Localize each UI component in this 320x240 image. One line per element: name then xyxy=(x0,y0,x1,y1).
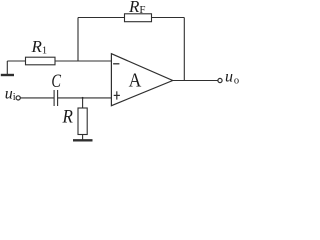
minus sign (inverting input) xyxy=(113,63,119,65)
svg-text:R: R xyxy=(62,106,73,127)
ground (below R) xyxy=(73,139,93,141)
resistor RF xyxy=(125,14,152,22)
wire R to ground xyxy=(82,135,84,140)
wire op-amp output xyxy=(173,80,218,82)
svg-text:A: A xyxy=(129,69,142,91)
plus sign (non-inverting input) xyxy=(114,91,120,99)
terminal uo xyxy=(218,78,222,82)
wire junction to R xyxy=(82,98,84,108)
wire feedback top left xyxy=(78,17,125,19)
wire ground to R1 xyxy=(7,60,25,62)
svg-text:C: C xyxy=(51,70,61,91)
wire feedback vertical right xyxy=(183,18,185,81)
wire feedback vertical left xyxy=(77,18,79,62)
op-amp A xyxy=(111,54,172,106)
wire R1 to op-amp inverting input xyxy=(55,60,112,62)
wire ui terminal to capacitor xyxy=(20,97,54,99)
resistor R xyxy=(78,108,87,135)
ground (left) xyxy=(1,61,14,75)
resistor R1 xyxy=(26,57,56,65)
capacitor C xyxy=(54,90,58,106)
terminal ui xyxy=(16,96,20,100)
wire capacitor to op-amp non-inverting input xyxy=(58,97,112,99)
wire feedback top right xyxy=(152,17,185,19)
node (junction of input wire and R) xyxy=(82,97,84,99)
